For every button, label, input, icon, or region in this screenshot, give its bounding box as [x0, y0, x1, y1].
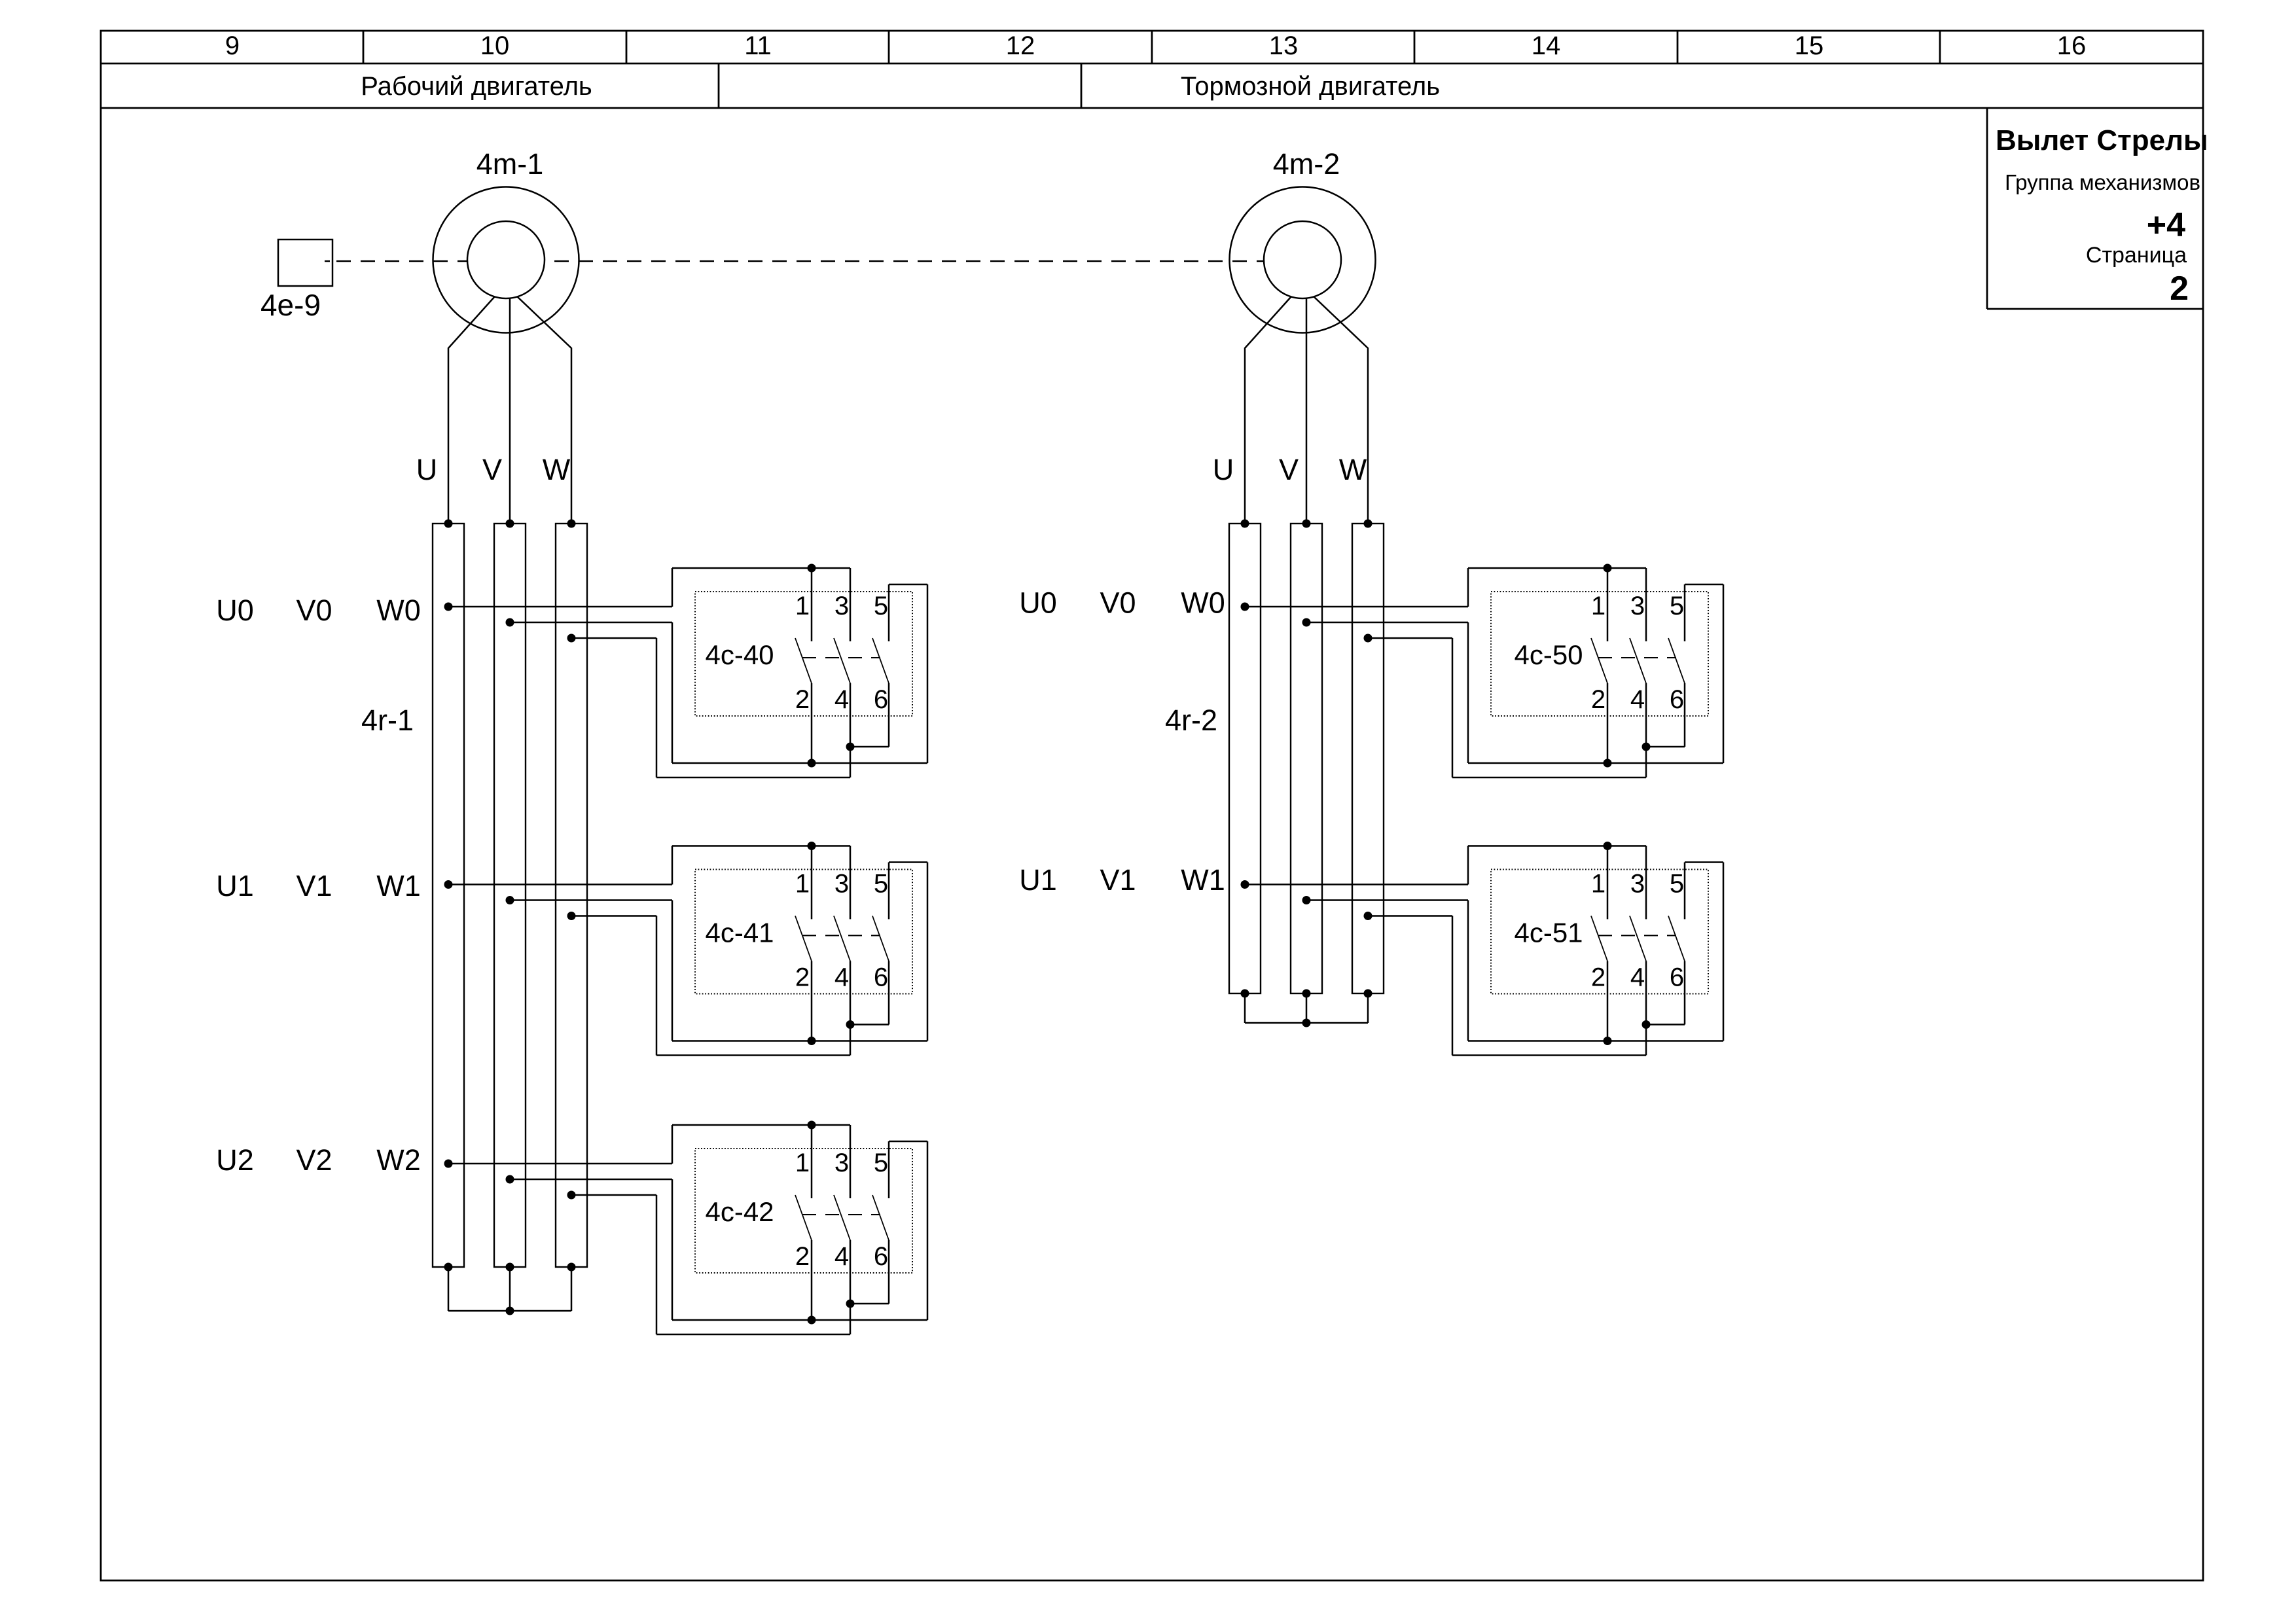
resistor 4r-2 column W	[1352, 524, 1384, 993]
svg-text:6: 6	[1670, 685, 1684, 714]
svg-text:V: V	[1279, 453, 1299, 486]
resistor 4r-2 column U	[1229, 524, 1261, 993]
svg-text:U0: U0	[216, 594, 254, 627]
wire 4c-42 top line	[672, 1124, 850, 1126]
wire 4c-41 contact 5 top feed	[889, 861, 927, 863]
svg-text:V1: V1	[1100, 863, 1136, 897]
wire 4c-50 W routing column	[1452, 638, 1454, 777]
svg-text:4m-2: 4m-2	[1273, 147, 1340, 181]
wire tap W to 4c-50	[1368, 637, 1452, 639]
junction tap U 4c-41	[444, 880, 453, 889]
svg-text:15: 15	[1795, 31, 1824, 60]
dotted enclosure 4c-51	[1491, 870, 1708, 994]
contact 4c-42:5-6	[888, 1141, 890, 1198]
svg-text:4: 4	[834, 685, 849, 714]
svg-text:4r-2: 4r-2	[1165, 704, 1217, 737]
junction tap W 4c-41	[567, 912, 576, 920]
wire 4c-40 left column down	[672, 622, 673, 763]
resistor 4r-1 column V	[494, 524, 526, 1267]
junction tap V 4c-50	[1302, 618, 1311, 627]
wire tap V to 4c-40	[510, 622, 672, 624]
junction tap V 4c-40	[506, 618, 514, 627]
svg-text:W: W	[543, 453, 571, 486]
wire 4c-51 left column up	[1467, 846, 1469, 885]
wire tap U to 4c-41	[448, 883, 672, 885]
svg-text:V0: V0	[1100, 586, 1136, 620]
contact 4c-41:3-4	[850, 846, 852, 919]
mechanical link dashes 4c-51	[1598, 935, 1676, 936]
junction 4c-40 contact 2 bottom	[808, 759, 816, 768]
svg-text:Вылет Стрелы: Вылет Стрелы	[1996, 124, 2208, 156]
svg-text:U0: U0	[1019, 586, 1057, 620]
contact 4c-41:5-6	[888, 863, 890, 919]
wire 4r-1 column U to star bus	[448, 1267, 450, 1311]
wire 4c-51 right edge	[1723, 863, 1725, 1041]
wire tap W to 4c-42	[571, 1194, 656, 1196]
svg-text:W0: W0	[376, 594, 421, 627]
junction tap W 4c-50	[1364, 634, 1372, 643]
wire 4c-42 left column up	[672, 1125, 673, 1164]
wire 4c-50 right edge	[1723, 584, 1725, 763]
svg-text:U: U	[1213, 453, 1234, 486]
junction motor lead W to 4r-1	[567, 520, 576, 528]
junction 4c-42 contact 2 bottom	[808, 1316, 816, 1325]
dotted enclosure 4c-42	[695, 1149, 912, 1273]
svg-text:6: 6	[1670, 963, 1684, 992]
wire 4c-42 W routing column	[656, 1195, 658, 1334]
junction tap U 4c-51	[1241, 880, 1249, 889]
svg-text:3: 3	[1630, 592, 1645, 620]
svg-text:4c-50: 4c-50	[1514, 639, 1583, 670]
contact 4c-51:1-2	[1607, 846, 1609, 919]
contact 4c-51:5-6	[1684, 863, 1686, 919]
svg-text:2: 2	[795, 1242, 810, 1271]
svg-text:9: 9	[225, 31, 240, 60]
svg-text:W1: W1	[1181, 863, 1225, 897]
svg-text:4m-1: 4m-1	[476, 147, 544, 181]
svg-text:5: 5	[874, 870, 888, 899]
wire 4c-51 W routing column	[1452, 916, 1454, 1056]
svg-text:5: 5	[1670, 870, 1684, 899]
svg-text:Тормозной двигатель: Тормозной двигатель	[1181, 72, 1440, 101]
junction 4c-51 contact 1 top	[1604, 842, 1612, 850]
contact 4c-40:1-2	[811, 568, 813, 641]
svg-text:4c-42: 4c-42	[705, 1196, 774, 1227]
wire motor 4m-2 lead U	[1245, 296, 1291, 524]
contact 4c-50:3-4	[1645, 568, 1647, 641]
svg-text:W1: W1	[376, 869, 421, 902]
wire 4c-51 top line	[1468, 845, 1646, 847]
svg-text:2: 2	[795, 963, 810, 992]
svg-text:4: 4	[1630, 685, 1645, 714]
wire 4c-42 W output	[656, 1334, 850, 1336]
wire 4r-2 star bus	[1245, 1022, 1368, 1024]
wire 4c-40 contact 5 top feed	[889, 584, 927, 586]
svg-text:4: 4	[834, 1242, 849, 1271]
svg-text:U1: U1	[1019, 863, 1057, 897]
junction 4c-51 contact 6 to 4	[1642, 1020, 1651, 1029]
contact 4c-40:3-4	[850, 568, 852, 641]
wire 4c-41 left column down	[672, 901, 673, 1041]
junction 4r-1 column U bottom	[444, 1263, 453, 1272]
svg-text:13: 13	[1269, 31, 1299, 60]
contact 4c-42:3-4	[850, 1125, 852, 1198]
junction tap V 4c-42	[506, 1175, 514, 1184]
svg-text:Рабочий двигатель: Рабочий двигатель	[361, 72, 592, 101]
wire 4r-1 star bus	[448, 1310, 571, 1312]
junction tap U 4c-40	[444, 603, 453, 611]
svg-text:14: 14	[1532, 31, 1561, 60]
wire motor 4m-2 lead V	[1306, 298, 1308, 524]
junction 4r-1 star point	[506, 1307, 514, 1315]
svg-text:1: 1	[1591, 870, 1605, 899]
wire 4c-42 bottom bus	[672, 1319, 927, 1321]
motor 4m-1 inner circle	[467, 221, 545, 298]
contact 4c-40:5-6	[888, 584, 890, 641]
svg-text:U1: U1	[216, 869, 254, 902]
svg-text:V0: V0	[296, 594, 332, 627]
motor 4m-1 outer circle	[433, 187, 579, 333]
wire 4c-41 bottom bus	[672, 1040, 927, 1042]
svg-text:6: 6	[874, 963, 888, 992]
junction tap U 4c-50	[1241, 603, 1249, 611]
mechanical link dashes 4c-40	[802, 657, 880, 658]
wire tap W to 4c-40	[571, 637, 656, 639]
junction tap V 4c-41	[506, 896, 514, 904]
dotted enclosure 4c-41	[695, 870, 912, 994]
wire 4c-51 W output	[1452, 1054, 1646, 1056]
wire 4c-41 right edge	[927, 863, 929, 1041]
svg-text:1: 1	[795, 870, 810, 899]
wire 4c-41 top line	[672, 845, 850, 847]
resistor 4r-1 column W	[556, 524, 587, 1267]
wire 4c-51 contact 5 top feed	[1685, 861, 1723, 863]
svg-text:W0: W0	[1181, 586, 1225, 620]
wire 4c-51 bottom bus	[1468, 1040, 1723, 1042]
svg-text:6: 6	[874, 685, 888, 714]
contact 4c-42:1-2	[811, 1125, 813, 1198]
junction motor lead V to 4r-1	[506, 520, 514, 528]
junction tap W 4c-51	[1364, 912, 1372, 920]
svg-text:3: 3	[834, 1149, 849, 1177]
junction 4c-42 contact 6 to 4	[846, 1300, 855, 1308]
svg-text:W: W	[1339, 453, 1367, 486]
wire 4c-51 contact 6 link	[1646, 1024, 1685, 1026]
svg-text:5: 5	[1670, 592, 1684, 620]
contact 4c-50:5-6	[1684, 584, 1686, 641]
junction tap U 4c-42	[444, 1160, 453, 1168]
junction motor lead V to 4r-2	[1302, 520, 1311, 528]
svg-text:4: 4	[834, 963, 849, 992]
svg-text:6: 6	[874, 1242, 888, 1271]
mechanical shaft dashed line	[325, 260, 330, 262]
junction motor lead W to 4r-2	[1364, 520, 1372, 528]
title block box	[1986, 108, 1988, 309]
svg-text:2: 2	[2170, 270, 2189, 308]
wire 4c-50 left column down	[1467, 622, 1469, 763]
wire 4c-40 top line	[672, 567, 850, 569]
wire 4c-40 right edge	[927, 584, 929, 763]
junction tap W 4c-42	[567, 1191, 576, 1200]
junction 4c-40 contact 6 to 4	[846, 743, 855, 751]
svg-text:11: 11	[744, 31, 772, 60]
wire tap V to 4c-41	[510, 899, 672, 901]
wire 4c-50 contact 6 link	[1646, 746, 1685, 748]
svg-text:2: 2	[1591, 963, 1605, 992]
wire tap V to 4c-51	[1306, 899, 1468, 901]
junction 4r-2 column V bottom	[1302, 990, 1311, 998]
junction 4r-2 column U bottom	[1241, 990, 1249, 998]
junction 4r-1 column W bottom	[567, 1263, 576, 1272]
wire 4c-40 bottom bus	[672, 762, 927, 764]
junction 4r-2 star point	[1302, 1019, 1311, 1027]
dotted enclosure 4c-50	[1491, 592, 1708, 716]
wire 4c-41 left column up	[672, 846, 673, 885]
svg-text:2: 2	[1591, 685, 1605, 714]
svg-text:V1: V1	[296, 869, 332, 902]
wire 4c-42 contact 6 link	[850, 1303, 889, 1305]
wire tap U to 4c-40	[448, 606, 672, 608]
wire 4c-50 bottom bus	[1468, 762, 1723, 764]
wire 4c-50 W output	[1452, 777, 1646, 779]
wire 4c-51 left column down	[1467, 901, 1469, 1041]
wire 4c-41 W output	[656, 1054, 850, 1056]
svg-text:U: U	[416, 453, 438, 486]
resistor 4r-2 column V	[1291, 524, 1322, 993]
wire tap V to 4c-50	[1306, 622, 1468, 624]
wire tap W to 4c-41	[571, 915, 656, 917]
wire motor 4m-2 lead W	[1314, 296, 1368, 524]
junction 4c-42 contact 1 top	[808, 1121, 816, 1130]
wire 4c-50 top line	[1468, 567, 1646, 569]
wire 4c-40 left column up	[672, 568, 673, 607]
svg-text:+4: +4	[2147, 206, 2185, 244]
wire 4c-42 left column down	[672, 1179, 673, 1320]
svg-text:4r-1: 4r-1	[361, 704, 414, 737]
svg-text:10: 10	[480, 31, 510, 60]
encoder box 4e-9	[278, 240, 332, 286]
motor 4m-2 inner circle	[1264, 221, 1341, 298]
svg-text:U2: U2	[216, 1143, 254, 1177]
svg-text:W2: W2	[376, 1143, 421, 1177]
svg-text:3: 3	[1630, 870, 1645, 899]
contact 4c-51:3-4	[1645, 846, 1647, 919]
svg-text:1: 1	[795, 1149, 810, 1177]
junction 4c-41 contact 2 bottom	[808, 1037, 816, 1045]
svg-text:V: V	[482, 453, 502, 486]
wire tap W to 4c-51	[1368, 915, 1452, 917]
junction 4c-50 contact 1 top	[1604, 564, 1612, 573]
contact 4c-41:1-2	[811, 846, 813, 919]
svg-text:1: 1	[795, 592, 810, 620]
wire 4c-41 contact 6 link	[850, 1024, 889, 1026]
wire 4c-40 contact 6 link	[850, 746, 889, 748]
svg-text:5: 5	[874, 592, 888, 620]
resistor 4r-1 column U	[433, 524, 464, 1267]
junction 4c-40 contact 1 top	[808, 564, 816, 573]
wire 4c-40 W output	[656, 777, 850, 779]
wire 4r-1 column V to star bus	[509, 1267, 511, 1311]
wire 4r-1 column W to star bus	[571, 1267, 573, 1311]
wire motor 4m-1 lead U	[448, 296, 495, 524]
wire 4r-2 column U to star bus	[1244, 993, 1246, 1023]
junction tap W 4c-40	[567, 634, 576, 643]
wire 4c-40 W routing column	[656, 638, 658, 777]
wire tap U to 4c-42	[448, 1163, 672, 1165]
svg-text:2: 2	[795, 685, 810, 714]
svg-text:4c-51: 4c-51	[1514, 918, 1583, 948]
junction 4r-2 column W bottom	[1364, 990, 1372, 998]
svg-text:3: 3	[834, 592, 849, 620]
wire tap U to 4c-51	[1245, 883, 1468, 885]
mechanical link dashes 4c-42	[802, 1214, 880, 1215]
svg-text:4c-40: 4c-40	[705, 639, 774, 670]
svg-text:16: 16	[2057, 31, 2087, 60]
junction tap V 4c-51	[1302, 896, 1311, 904]
motor 4m-2 outer circle	[1230, 187, 1376, 333]
svg-text:Страница: Страница	[2086, 243, 2187, 268]
mechanical link dashes 4c-41	[802, 935, 880, 936]
svg-text:V2: V2	[296, 1143, 332, 1177]
svg-text:4: 4	[1630, 963, 1645, 992]
svg-text:4c-41: 4c-41	[705, 918, 774, 948]
wire tap V to 4c-42	[510, 1179, 672, 1181]
svg-text:5: 5	[874, 1149, 888, 1177]
wire motor 4m-1 lead V	[509, 298, 511, 524]
junction 4c-41 contact 1 top	[808, 842, 816, 850]
svg-text:3: 3	[834, 870, 849, 899]
mechanical link dashes 4c-50	[1598, 657, 1676, 658]
svg-text:Группа механизмов: Группа механизмов	[2005, 170, 2200, 194]
junction 4c-41 contact 6 to 4	[846, 1020, 855, 1029]
wire motor 4m-1 lead W	[517, 296, 571, 524]
junction 4c-50 contact 2 bottom	[1604, 759, 1612, 768]
junction 4c-51 contact 2 bottom	[1604, 1037, 1612, 1045]
junction 4r-1 column V bottom	[506, 1263, 514, 1272]
wire 4c-42 contact 5 top feed	[889, 1141, 927, 1143]
wire 4c-50 contact 5 top feed	[1685, 584, 1723, 586]
contact 4c-50:1-2	[1607, 568, 1609, 641]
junction motor lead U to 4r-2	[1241, 520, 1249, 528]
wire 4c-42 right edge	[927, 1141, 929, 1320]
dotted enclosure 4c-40	[695, 592, 912, 716]
svg-text:12: 12	[1006, 31, 1035, 60]
wire tap U to 4c-50	[1245, 606, 1468, 608]
wire 4c-41 W routing column	[656, 916, 658, 1056]
wire 4r-2 column V to star bus	[1306, 993, 1308, 1023]
junction motor lead U to 4r-1	[444, 520, 453, 528]
wire 4r-2 column W to star bus	[1367, 993, 1369, 1023]
svg-text:4e-9: 4e-9	[260, 288, 321, 322]
junction 4c-50 contact 6 to 4	[1642, 743, 1651, 751]
svg-text:1: 1	[1591, 592, 1605, 620]
wire 4c-50 left column up	[1467, 568, 1469, 607]
